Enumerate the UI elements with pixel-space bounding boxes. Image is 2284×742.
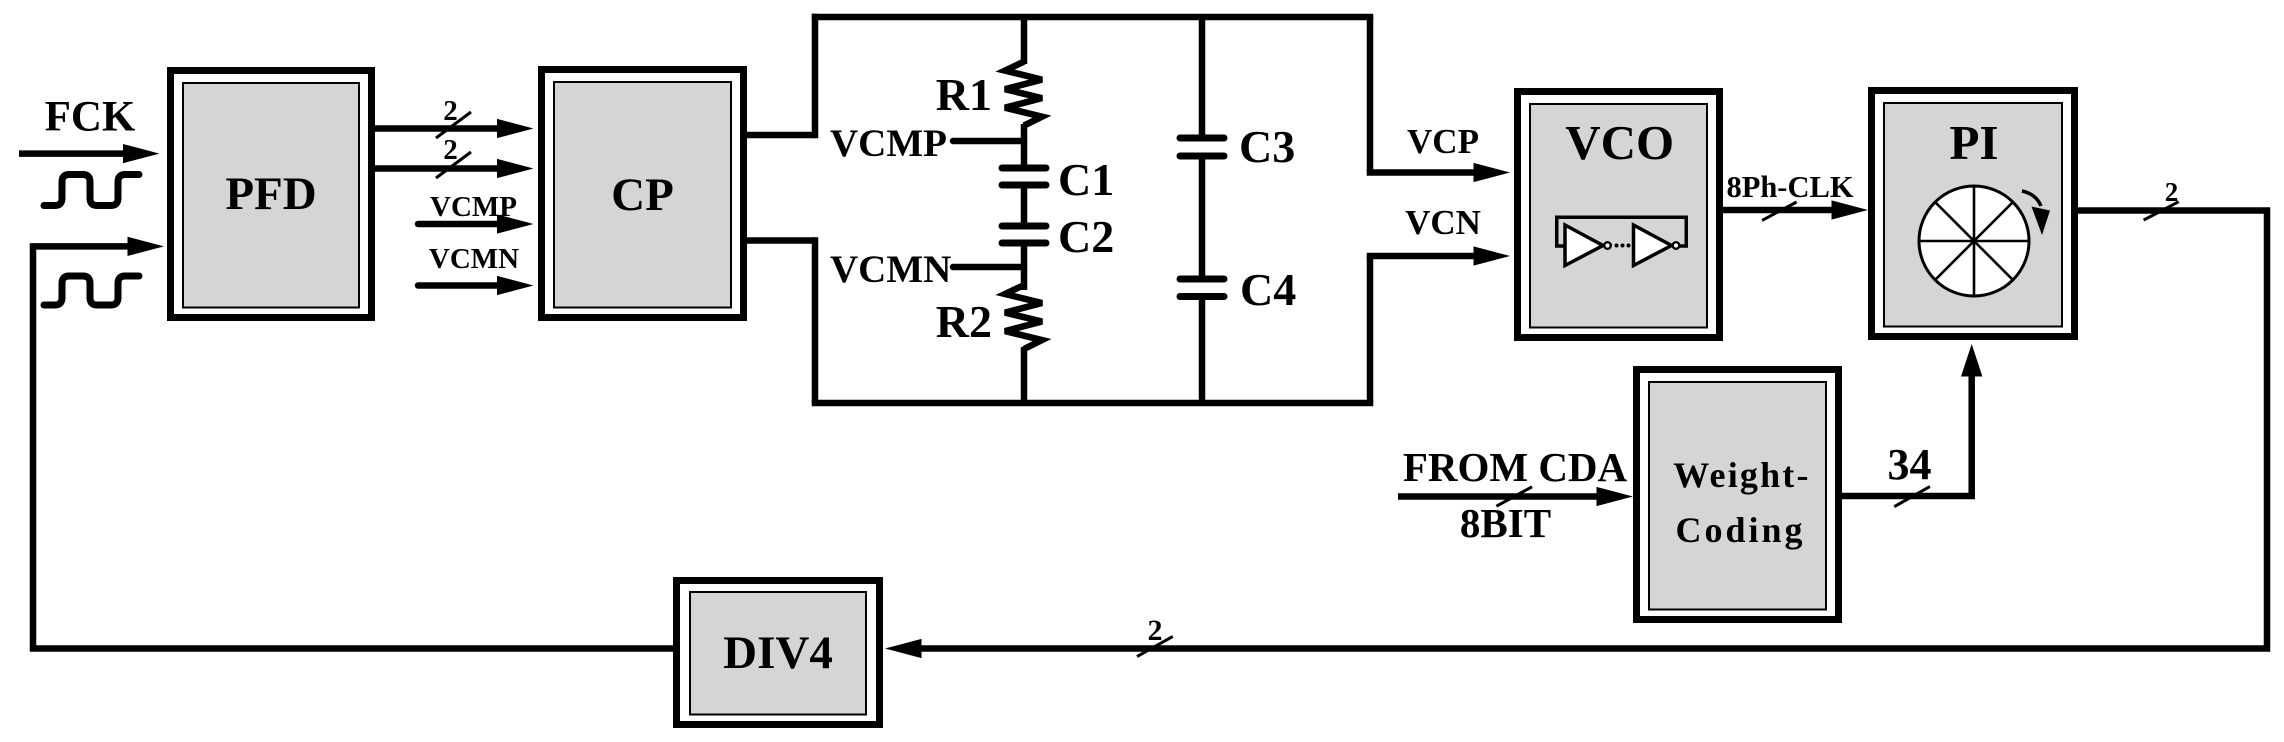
svg-text:VCMN: VCMN bbox=[830, 248, 951, 291]
wire PFD to CP bus 1 bbox=[375, 119, 534, 138]
svg-text:R2: R2 bbox=[936, 296, 992, 347]
svg-text:R1: R1 bbox=[936, 69, 992, 120]
block PI (phase interpolator) bbox=[1872, 91, 2075, 337]
wire filter right upper vertical bbox=[1367, 17, 1374, 173]
svg-text:C4: C4 bbox=[1240, 264, 1296, 315]
wire CP top output to loop filter bbox=[747, 132, 815, 139]
wire branch2 top (rail to C3) bbox=[1199, 17, 1206, 138]
wire C2 to R2 bbox=[1021, 243, 1028, 290]
wire VCMP into CP bbox=[418, 214, 534, 233]
clock waveform symbol (feedback input) bbox=[44, 276, 139, 305]
svg-text:8Ph-CLK: 8Ph-CLK bbox=[1726, 170, 1853, 204]
wire PFD to CP bus 2 bbox=[375, 159, 534, 178]
resistor R2 bbox=[1005, 285, 1042, 349]
VCO ring oscillator icon bbox=[1557, 217, 1687, 265]
block Weight-Coding bbox=[1637, 370, 1839, 620]
wire C3 to C4 bbox=[1199, 156, 1206, 279]
wire C4 to bottom rail bbox=[1199, 297, 1206, 404]
wire filter left lower vertical bbox=[812, 237, 819, 403]
wire filter left upper vertical bbox=[812, 14, 819, 139]
bus slash on DIV4 input wire bbox=[1137, 636, 1173, 656]
wire branch1 top (rail to R1) bbox=[1021, 17, 1028, 64]
svg-text:C2: C2 bbox=[1058, 211, 1114, 262]
svg-text:VCMN: VCMN bbox=[429, 243, 519, 275]
PI interpolator wheel icon bbox=[1919, 186, 2029, 296]
resistor R1 bbox=[1005, 62, 1042, 126]
svg-text:C3: C3 bbox=[1239, 121, 1295, 172]
block CP (charge pump) bbox=[542, 70, 744, 318]
arrowhead into DIV4 bbox=[885, 639, 922, 658]
capacitor C3 bbox=[1180, 138, 1224, 156]
wire VCP to VCO bbox=[1367, 163, 1510, 182]
svg-text:VCP: VCP bbox=[1407, 122, 1479, 161]
capacitor C4 bbox=[1180, 279, 1224, 297]
clock waveform symbol (reference input) bbox=[44, 175, 139, 206]
bus slash on wire 2 bbox=[436, 152, 471, 178]
svg-text:Weight-: Weight- bbox=[1673, 455, 1810, 495]
wire FCK input arrow into PFD bbox=[19, 144, 160, 163]
svg-text:CP: CP bbox=[611, 169, 674, 221]
block DIV4 (divider) bbox=[677, 581, 880, 725]
PI rotation arrow bbox=[2022, 191, 2050, 235]
wire R1 to C1 bbox=[1021, 124, 1028, 168]
wire R2 to bottom rail bbox=[1021, 347, 1028, 403]
svg-text:34: 34 bbox=[1888, 440, 1932, 489]
wire VCMN into CP bbox=[418, 276, 534, 295]
svg-text:C1: C1 bbox=[1058, 154, 1114, 205]
wire filter top rail bbox=[812, 14, 1374, 21]
capacitor C1 bbox=[1002, 168, 1046, 185]
svg-text:2: 2 bbox=[443, 95, 458, 127]
svg-text:Coding: Coding bbox=[1675, 510, 1805, 550]
svg-text:VCO: VCO bbox=[1565, 115, 1674, 170]
svg-text:2: 2 bbox=[1148, 614, 1163, 647]
svg-text:VCMP: VCMP bbox=[830, 122, 947, 165]
svg-text:FCK: FCK bbox=[45, 94, 136, 141]
svg-text:8BIT: 8BIT bbox=[1460, 500, 1551, 546]
svg-text:2: 2 bbox=[2165, 177, 2179, 207]
wire FROM CDA into Weight-Coding bbox=[1398, 487, 1633, 506]
bus slash on wire 1 bbox=[436, 112, 471, 138]
wire VCO to PI (8Ph-CLK) bbox=[1723, 200, 1868, 219]
capacitor C2 bbox=[1002, 226, 1046, 243]
block VCO (voltage controlled oscillator) bbox=[1518, 92, 1720, 338]
wire VCN to VCO bbox=[1367, 246, 1510, 265]
bus slash on PI output wire bbox=[2144, 202, 2179, 220]
bus slash on FROM CDA wire bbox=[1496, 487, 1532, 506]
wire CP bottom output to loop filter bbox=[747, 237, 815, 244]
block PFD (phase frequency detector) bbox=[171, 71, 372, 318]
svg-text:VCN: VCN bbox=[1405, 203, 1481, 242]
wire filter bottom rail bbox=[812, 400, 1374, 407]
bus slash on 34 wire bbox=[1894, 487, 1930, 507]
wire VCMP node lead bbox=[953, 138, 1024, 145]
bus slash on 8Ph-CLK wire bbox=[1762, 202, 1797, 220]
wire VCMN node lead bbox=[953, 264, 1024, 271]
svg-text:PI: PI bbox=[1950, 115, 1999, 170]
svg-text:FROM CDA: FROM CDA bbox=[1403, 444, 1628, 490]
svg-text:DIV4: DIV4 bbox=[723, 627, 833, 679]
wire feedback from DIV4 into PFD second input bbox=[33, 237, 673, 649]
wire PI output (2) to feedback bbox=[919, 211, 2267, 649]
svg-text:PFD: PFD bbox=[225, 168, 316, 220]
wire Weight-Coding output (34) to PI bbox=[1842, 344, 1982, 496]
wire filter right lower vertical bbox=[1367, 256, 1374, 403]
wire C1 to C2 bbox=[1021, 185, 1028, 226]
svg-text:2: 2 bbox=[443, 134, 458, 166]
